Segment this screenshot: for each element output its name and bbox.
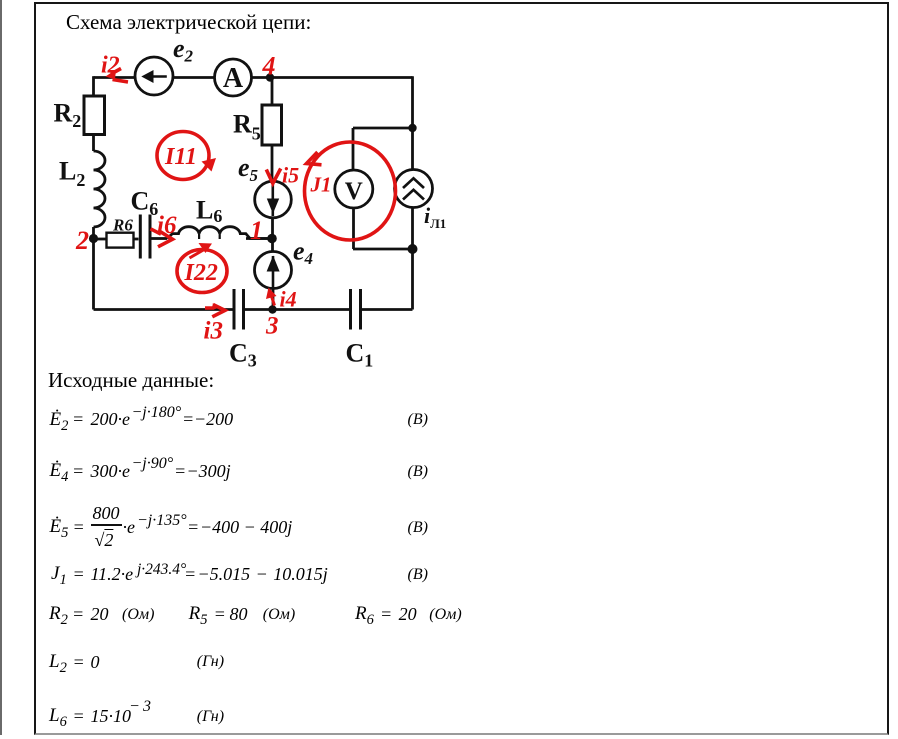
inductor L6 — [167, 227, 268, 239]
svg-text:L2: L2 — [59, 157, 85, 191]
ammeter A — [215, 59, 252, 96]
wire node4 down to R5 — [271, 78, 274, 106]
junction dot right wire top — [408, 124, 416, 132]
capacitor C3 plates — [234, 289, 244, 330]
equation E2 — [50, 410, 69, 434]
red arrowhead J1 loop — [307, 152, 322, 165]
red arrowhead I22 — [199, 243, 213, 253]
bottom wire left segment to C3 — [94, 308, 233, 311]
svg-text:4: 4 — [262, 52, 276, 81]
voltmeter branch top horizontal wire — [353, 127, 413, 130]
node 3 — [268, 305, 276, 313]
resistor R2 — [84, 96, 105, 135]
svg-text:R2: R2 — [54, 99, 82, 132]
wire C6 to L6 — [152, 237, 168, 240]
right wire top segment — [411, 76, 414, 170]
red arrowhead i3 (dash) — [213, 304, 222, 310]
resistor R5 — [262, 105, 282, 145]
bottom wire C1 to bottom-right corner — [362, 308, 413, 311]
L2 value row — [49, 652, 67, 676]
red arrowhead i4 — [266, 288, 277, 300]
title — [66, 10, 311, 35]
red arrow for i6 — [151, 229, 173, 247]
wire node1 to e4 — [271, 239, 274, 252]
svg-text:2: 2 — [75, 226, 89, 255]
svg-text:iЛ1: iЛ1 — [424, 203, 446, 231]
red arrow for i2 — [111, 69, 128, 83]
source e4 circle with up arrow — [255, 252, 292, 289]
wire e4 to node3 — [272, 289, 275, 310]
red annotations — [75, 52, 332, 345]
wire R5 to e5 — [271, 145, 274, 182]
label R2 — [54, 34, 447, 371]
red arrowhead for i5 — [266, 169, 280, 184]
red arrowhead I11 — [202, 158, 217, 172]
red arrow I22 tail — [190, 249, 206, 258]
voltmeter branch bottom horizontal wire — [353, 248, 413, 251]
svg-text:I11: I11 — [164, 144, 197, 170]
red loop I22 circle — [177, 250, 227, 293]
svg-text:C3: C3 — [229, 339, 257, 371]
svg-text:3: 3 — [265, 313, 279, 340]
svg-text:e4: e4 — [293, 237, 313, 269]
red arrow for i4 — [270, 290, 275, 306]
bottom wire C3 to C1 — [245, 308, 349, 311]
red arrow for i3 — [205, 305, 225, 317]
red arrowhead i2 — [106, 70, 117, 80]
svg-text:I22: I22 — [184, 260, 218, 286]
red loop J1 circle — [305, 142, 396, 240]
resistor R6 — [107, 233, 134, 248]
red loop I11 circle — [157, 132, 209, 180]
wire R6 to C6 — [134, 238, 139, 241]
svg-text:A: A — [223, 63, 244, 94]
svg-text:i4: i4 — [280, 287, 297, 312]
capacitor C1 plates — [351, 289, 361, 330]
heading: source data — [48, 368, 214, 393]
svg-text:L6: L6 — [196, 196, 222, 227]
svg-text:i3: i3 — [204, 318, 223, 345]
wire node2 to R6 — [94, 238, 107, 241]
wire R2 to L2 — [92, 135, 95, 152]
wire L2 to node2 to bottom-left corner — [92, 227, 95, 310]
source e2 circle — [135, 57, 173, 95]
voltmeter branch bottom vertical wire — [352, 208, 355, 250]
junction dot right wire bottom — [408, 244, 418, 254]
wire ammeter to node4 and top-right corner — [252, 76, 413, 79]
svg-text:R6: R6 — [112, 216, 133, 235]
svg-text:i5: i5 — [282, 163, 299, 188]
svg-text:C6: C6 — [131, 187, 159, 220]
svg-text:e2: e2 — [173, 34, 194, 66]
current source J1 circle with double chevron — [395, 170, 433, 208]
inductor L2 — [94, 151, 106, 227]
svg-text:C1: C1 — [346, 339, 374, 371]
resistor values row — [49, 604, 68, 628]
node 1 — [267, 234, 277, 244]
voltmeter V — [335, 170, 373, 208]
source e5 circle with down arrow — [255, 181, 292, 218]
wire top-left corner to e2 — [94, 76, 136, 79]
wire e2 to ammeter — [172, 76, 215, 79]
node 4 — [266, 73, 274, 81]
svg-text:1: 1 — [250, 216, 263, 245]
node 2 — [89, 234, 98, 243]
svg-text:e5: e5 — [238, 153, 259, 185]
L6 value row — [49, 706, 67, 730]
right wire bottom segment — [411, 207, 414, 310]
svg-text:J1: J1 — [310, 173, 332, 197]
capacitor C6 plates — [140, 215, 150, 259]
equation J1 — [51, 564, 67, 588]
svg-text:V: V — [345, 178, 363, 205]
equation E5 — [50, 517, 69, 541]
left edge scan strip — [0, 0, 2, 735]
wire L6 to node1 — [246, 237, 272, 240]
wire left side down to R2 — [92, 76, 95, 96]
equation E4 — [50, 461, 69, 485]
wire e5 to node1 — [271, 217, 274, 239]
voltmeter branch top vertical wire — [352, 128, 355, 171]
svg-text:R5: R5 — [233, 110, 261, 144]
